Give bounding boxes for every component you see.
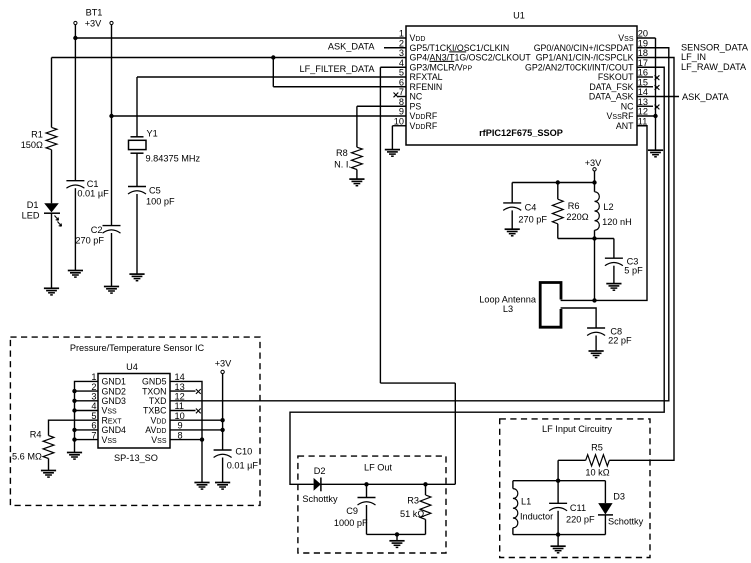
svg-text:L3: L3 [503, 304, 513, 314]
node junction U4 pin 8 / GND5 [200, 437, 204, 441]
svg-text:6: 6 [399, 77, 404, 87]
node junction U4 pin 7 bus [72, 437, 76, 441]
inductor L1 [513, 489, 518, 528]
wire R8 branch down [356, 106, 358, 147]
wire LED branch down to R1 [51, 58, 53, 128]
svg-text:1000 pF: 1000 pF [334, 518, 368, 528]
node junction R3 top [423, 482, 427, 486]
svg-text:20: 20 [638, 29, 648, 39]
node junction LF input ground [556, 532, 560, 536]
svg-text:10: 10 [394, 116, 404, 126]
wire U4 pin 14 GND5 to ground [170, 381, 202, 482]
node junction C9 top [364, 482, 368, 486]
wire BT1 right terminal down to VDDRF rail [111, 25, 113, 116]
svg-text:C10: C10 [235, 447, 252, 457]
wire into U1 pin 6 RFENIN [273, 86, 406, 88]
wire C11 branch down [557, 481, 559, 504]
svg-text:DATA_FSK: DATA_FSK [589, 82, 633, 92]
resistor R5 [586, 455, 610, 466]
capacitor C10 [214, 450, 232, 458]
svg-text:L2: L2 [603, 202, 613, 212]
svg-text:100 pF: 100 pF [146, 197, 175, 207]
svg-text:1: 1 [91, 372, 96, 382]
svg-text:11: 11 [175, 401, 185, 411]
ground D1 [44, 288, 59, 295]
IC U1 body [406, 26, 637, 145]
svg-text:RFXTAL: RFXTAL [410, 72, 443, 82]
ground R8 [349, 179, 364, 186]
wire U1 pin 8 PS to R8 [357, 105, 406, 107]
node junction U4 pin 6 bus [72, 428, 76, 432]
crystal Y1 [131, 136, 144, 138]
ground U4 GND5/VSS [194, 483, 209, 490]
battery BT1 terminal right [110, 21, 113, 24]
wire R6 bottom lead [557, 224, 559, 239]
U4 pin 13 no-connect x mark [196, 389, 201, 394]
node junction L2 bottom [592, 236, 596, 240]
svg-text:C5: C5 [149, 185, 161, 195]
wire D3 branch down [604, 481, 606, 503]
node junction BT1right/VDDRF/C2 [109, 114, 113, 118]
wire U1 pin 15 stub [637, 86, 653, 88]
node junction VDD/+3V [220, 418, 224, 422]
wire R5 node down [557, 460, 559, 480]
svg-text:D2: D2 [314, 466, 326, 476]
wire +3V rail C4/R6/L2 [512, 182, 594, 184]
svg-text:18: 18 [638, 48, 648, 58]
node junction U4 pin 4 bus [72, 408, 76, 412]
svg-text:1: 1 [399, 29, 404, 39]
node junction L1/C11/D3 top [556, 479, 560, 483]
svg-text:9: 9 [399, 107, 404, 117]
ground LF input [551, 546, 566, 553]
wire U4 pin 7 stub [75, 439, 99, 441]
wire ASK_DATA stub to U1 pin 2 [384, 47, 406, 49]
wire U1 pin 7 stub [398, 96, 406, 98]
wire ASK_DATA from U1 pin 14 [637, 96, 679, 98]
svg-text:19: 19 [638, 38, 648, 48]
wire SENSOR_DATA U1 pin 19 to U4 TXD [170, 48, 669, 401]
node junction BT1/VDD/C1 [73, 36, 77, 40]
svg-text:SP-13_SO: SP-13_SO [114, 453, 158, 463]
svg-text:R4: R4 [30, 429, 42, 439]
wire LF_FILTER_DATA stub to U1 pin 4 [380, 66, 406, 68]
svg-text:LF_RAW_DATA: LF_RAW_DATA [681, 62, 747, 72]
svg-text:9: 9 [178, 421, 183, 431]
diode D1 LED arrows [55, 216, 59, 221]
svg-text:11: 11 [638, 116, 648, 126]
wire LF_IN U1 pin 18 to R5 [609, 58, 674, 461]
svg-text:Pressure/Temperature Sensor IC: Pressure/Temperature Sensor IC [70, 343, 205, 353]
wire U1 pin 12 VSSRF stub [637, 115, 656, 117]
ground C4 [505, 229, 520, 236]
svg-text:17: 17 [638, 58, 648, 68]
wire C9 branch down [366, 484, 368, 497]
wire C2 to ground [111, 233, 113, 287]
svg-text:150Ω: 150Ω [21, 140, 43, 150]
svg-text:270 pF: 270 pF [518, 214, 547, 224]
wire C11 to bottom rail [557, 511, 559, 535]
svg-text:12: 12 [175, 392, 185, 402]
svg-text:LF Out: LF Out [364, 462, 393, 472]
dashed box Pressure/Temperature Sensor IC [10, 337, 260, 505]
wire LF_FILTER_DATA jog right [380, 382, 455, 384]
wire ANT U1 pin 11 to loop antenna [561, 126, 647, 301]
svg-text:U1: U1 [513, 11, 525, 21]
node junction U4 pin 2 bus [72, 389, 76, 393]
svg-text:FSKOUT: FSKOUT [598, 72, 634, 82]
ground C10 [215, 483, 230, 490]
svg-text:7: 7 [91, 430, 96, 440]
U1 pin 3 label overline (T1G) [449, 51, 466, 53]
wire C4 branch down [511, 183, 513, 203]
wire antenna lower terminal to C8 [561, 308, 597, 328]
svg-text:7: 7 [399, 87, 404, 97]
svg-text:SENSOR_DATA: SENSOR_DATA [681, 43, 749, 53]
svg-text:0.01 µF: 0.01 µF [227, 461, 259, 471]
svg-text:GND4: GND4 [102, 425, 127, 435]
wire R1 to D1 [51, 150, 53, 204]
supply +3V terminal (sensor) [221, 370, 224, 373]
wire D2 cathode to LF_FILTER node [321, 483, 455, 485]
svg-text:GP2/AN2/T0CKI/INT/COUT: GP2/AN2/T0CKI/INT/COUT [525, 62, 634, 72]
svg-text:12: 12 [638, 107, 648, 117]
wire C4 to ground [511, 210, 513, 229]
U1 pin 7 no-connect x mark [394, 93, 399, 98]
wire GP4 net U1 pin 3 to LED branch [52, 57, 407, 59]
capacitor C3 [605, 258, 623, 266]
node junction VSSRF/VSS [653, 114, 657, 118]
svg-text:3: 3 [91, 392, 96, 402]
wire L1 top lead [512, 481, 514, 489]
resistor R4 [43, 436, 54, 459]
svg-text:270 pF: 270 pF [75, 236, 104, 246]
svg-text:DATA_ASK: DATA_ASK [589, 92, 634, 102]
resistor R8 [352, 147, 363, 169]
wire U4 pin 2 stub [75, 390, 99, 392]
ground R4 [41, 471, 56, 478]
svg-text:U4: U4 [126, 362, 138, 372]
svg-text:Inductor: Inductor [520, 512, 553, 522]
U4 pin 11 no-connect x mark [196, 409, 201, 414]
wire R3 branch down [425, 484, 427, 495]
node junction antenna/ANT [592, 298, 596, 302]
svg-text:R3: R3 [407, 496, 419, 506]
svg-text:D1: D1 [27, 200, 39, 210]
wire LF Out bottom rail [367, 533, 426, 535]
wire C3 to ground [613, 266, 615, 284]
svg-text:3: 3 [399, 48, 404, 58]
svg-text:PS: PS [410, 101, 422, 111]
ground LF Out [389, 541, 404, 548]
wire pin3 net down to pin 6 [272, 58, 274, 87]
svg-text:+3V: +3V [215, 358, 232, 368]
capacitor C4 [503, 203, 521, 211]
supply +3V terminal (RF) [593, 168, 596, 171]
resistor R3 [420, 495, 431, 519]
svg-text:C11: C11 [570, 503, 586, 513]
svg-text:8: 8 [399, 97, 404, 107]
diode D3 schottky symbol [598, 503, 612, 514]
svg-text:LF_FILTER_DATA: LF_FILTER_DATA [299, 64, 375, 74]
svg-text:GND3: GND3 [102, 396, 127, 406]
wire LF input ground stem [557, 535, 559, 547]
svg-text:GND5: GND5 [142, 377, 167, 387]
svg-text:51 kΩ: 51 kΩ [400, 509, 424, 519]
ground U1 pin 10 [385, 150, 400, 157]
svg-text:TXBC: TXBC [143, 406, 167, 416]
ground C8 [589, 351, 604, 358]
node junction LF Out ground [395, 532, 399, 536]
svg-text:Schottky: Schottky [608, 517, 644, 527]
svg-text:Schottky: Schottky [302, 494, 338, 504]
capacitor C11 [549, 503, 567, 511]
svg-text:120 nH: 120 nH [602, 217, 632, 227]
svg-text:+3V: +3V [85, 18, 102, 28]
svg-text:16: 16 [638, 68, 648, 78]
wire U4 pin 8 VSS stub [170, 439, 202, 441]
wire VDDRF rail to U1 pin 9 [112, 115, 407, 117]
wire U4 pin 5 REXT to R4 [49, 420, 99, 435]
wire D3 to bottom rail [604, 515, 606, 535]
node junction L2 top [592, 180, 596, 184]
svg-text:14: 14 [175, 372, 185, 382]
capacitor C1 [66, 181, 84, 189]
svg-text:GP4/AN3/T1G/OSC2/CLKOUT: GP4/AN3/T1G/OSC2/CLKOUT [410, 53, 532, 63]
wire VDD rail from BT1 to U1 pin 1 [75, 37, 406, 39]
svg-text:+3V: +3V [585, 158, 602, 168]
wire C5 to ground [136, 194, 138, 274]
ground VSS U1 [648, 150, 663, 157]
wire R3 to bottom rail [425, 519, 427, 534]
svg-text:220 pF: 220 pF [566, 515, 595, 525]
svg-text:R8: R8 [336, 148, 348, 158]
svg-text:14: 14 [638, 87, 648, 97]
svg-text:ASK_DATA: ASK_DATA [328, 42, 376, 52]
wire U1 pin 20 VSS [637, 37, 656, 39]
wire C3 branch down [613, 239, 615, 259]
svg-text:5: 5 [91, 411, 96, 421]
svg-text:N. I.: N. I. [334, 159, 351, 169]
wire BT1 left terminal down [74, 25, 76, 38]
wire LF_RAW_DATA U1 pin 17 to D2 anode [290, 67, 664, 484]
svg-text:5.6 MΩ: 5.6 MΩ [12, 452, 42, 462]
svg-text:0.01 µF: 0.01 µF [77, 189, 109, 199]
svg-text:BT1: BT1 [86, 8, 103, 18]
wire U4 ground bus (pins 1,2,3,4,6,7) [75, 381, 99, 452]
svg-text:10: 10 [175, 411, 185, 421]
ground C2 [104, 287, 119, 294]
ground C3 [606, 284, 621, 291]
capacitor C2 [103, 226, 121, 234]
wire C1 to ground [74, 188, 76, 270]
svg-text:4: 4 [91, 401, 96, 411]
dashed box LF Out [298, 456, 446, 553]
svg-text:5: 5 [399, 68, 404, 78]
wire C10 to ground [222, 458, 224, 483]
wire L1 bottom lead [512, 528, 514, 535]
svg-text:9.84375 MHz: 9.84375 MHz [146, 153, 201, 163]
svg-text:NC: NC [410, 92, 423, 102]
svg-text:ANT: ANT [616, 121, 634, 131]
svg-text:GND1: GND1 [102, 377, 127, 387]
wire U1 pin 16 stub [637, 76, 653, 78]
wire L2 top lead [594, 183, 596, 192]
wire LF input bottom rail [513, 534, 606, 536]
U1 pin 16 no-connect x mark [655, 75, 660, 80]
wire R4 to ground [48, 459, 50, 471]
wire U4 pin 13 stub [170, 390, 196, 392]
wire crystal branch down [136, 77, 138, 137]
wire R5 left lead [558, 459, 586, 461]
svg-text:TXD: TXD [149, 396, 167, 406]
wire LF input top rail [513, 480, 606, 482]
wire R6/L2 bottom rail to C3 [558, 238, 614, 240]
wire +3V down to rail [594, 171, 596, 183]
wire U4 pin 4 stub [75, 410, 99, 412]
IC U4 body [98, 374, 170, 449]
battery BT1 terminal left [74, 21, 77, 24]
wire R6 top lead [557, 183, 559, 200]
wire pin 10 down to ground [391, 126, 393, 150]
svg-text:R1: R1 [31, 129, 43, 139]
wire VSS vertical to ground [655, 38, 657, 150]
inductor L2 [595, 192, 600, 230]
U1 pin 4 label overline (MCLR) [430, 60, 455, 62]
wire C9 to bottom rail [366, 505, 368, 534]
wire LF Out ground stem [396, 534, 398, 540]
svg-text:rfPIC12F675_SSOP: rfPIC12F675_SSOP [479, 128, 563, 138]
capacitor C9 [358, 498, 376, 506]
ground U4 bus [67, 453, 82, 460]
svg-text:LED: LED [22, 210, 40, 220]
svg-text:LF Input Circuitry: LF Input Circuitry [542, 424, 612, 434]
svg-text:Y1: Y1 [147, 129, 158, 139]
node junction U4 pin 3 bus [72, 399, 76, 403]
wire C8 to ground [595, 336, 597, 352]
wire U4 pin 10 VDD to +3V [170, 419, 223, 421]
node junction pin3/pin6 net [271, 55, 275, 59]
svg-text:TXON: TXON [142, 386, 166, 396]
svg-text:GP1/AN1/CIN-/ICSPCLK: GP1/AN1/CIN-/ICSPCLK [536, 53, 634, 63]
svg-text:13: 13 [638, 97, 648, 107]
svg-text:C4: C4 [525, 203, 537, 213]
dashed box LF Input Circuitry [500, 419, 650, 558]
diode D2 schottky symbol [314, 478, 321, 491]
ground C1 [68, 271, 83, 278]
ground C5 [129, 274, 144, 281]
svg-text:8: 8 [178, 430, 183, 440]
capacitor C8 [587, 328, 605, 336]
svg-text:13: 13 [175, 382, 185, 392]
svg-text:ASK_DATA: ASK_DATA [682, 92, 730, 102]
svg-text:2: 2 [91, 382, 96, 392]
svg-text:C2: C2 [91, 225, 103, 235]
svg-text:LF_IN: LF_IN [681, 52, 706, 62]
wire U4 pin 3 stub [75, 400, 99, 402]
svg-text:L1: L1 [521, 497, 531, 507]
svg-text:5 pF: 5 pF [624, 266, 643, 276]
loop antenna L3 symbol [540, 283, 561, 328]
svg-text:D3: D3 [613, 491, 625, 501]
svg-text:220Ω: 220Ω [566, 212, 588, 222]
svg-text:6: 6 [91, 421, 96, 431]
wire U1 pin 13 stub [637, 105, 653, 107]
wire Y1 to C5 [136, 153, 138, 186]
wire U4 pin 11 stub [170, 410, 196, 412]
capacitor C5 [128, 187, 146, 195]
wire LF_FILTER_DATA down to LF Out node [454, 383, 456, 484]
svg-text:22 pF: 22 pF [608, 336, 632, 346]
svg-text:10 kΩ: 10 kΩ [585, 467, 609, 477]
svg-text:C9: C9 [346, 506, 358, 516]
wire C1 branch down [74, 38, 76, 181]
wire LF_FILTER_DATA vertical down [379, 67, 381, 383]
wire U1 pin 5 RFXTAL to crystal [137, 76, 406, 78]
wire C2 branch down [111, 116, 113, 226]
U1 pin 13 no-connect x mark [655, 105, 660, 110]
resistor R1 [46, 127, 57, 149]
svg-text:R5: R5 [591, 442, 603, 452]
wire U1 pin 10 VDDRF stub [392, 125, 406, 127]
svg-text:2: 2 [399, 38, 404, 48]
node junction R6 top [556, 180, 560, 184]
diode D1 LED [44, 203, 59, 212]
wire D1 to ground [51, 213, 53, 288]
wire L2 node down to antenna node [594, 239, 596, 301]
wire U4 pin 9 AVDD to +3V [170, 429, 223, 431]
wire L2 bottom lead [594, 230, 596, 238]
node junction AVDD/+3V [220, 428, 224, 432]
svg-text:RFENIN: RFENIN [410, 82, 443, 92]
svg-text:15: 15 [638, 77, 648, 87]
wire R8 to ground [356, 170, 358, 180]
svg-text:GP0/AN0/CIN+/ICSPDAT: GP0/AN0/CIN+/ICSPDAT [534, 43, 634, 53]
resistor R6 [552, 199, 563, 224]
svg-text:NC: NC [621, 101, 634, 111]
U1 pin 15 no-connect x mark [655, 85, 660, 90]
svg-text:4: 4 [399, 58, 404, 68]
svg-text:GND2: GND2 [102, 386, 127, 396]
svg-text:R6: R6 [568, 201, 580, 211]
wire U4 pin 6 stub [75, 429, 99, 431]
wire +3V down to C10 [222, 374, 224, 450]
